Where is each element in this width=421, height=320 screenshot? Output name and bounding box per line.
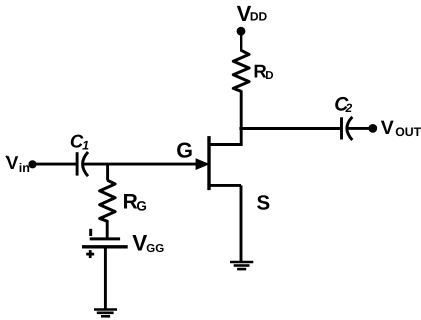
wire Vin dot to C1 bbox=[33, 163, 78, 166]
svg-text:V: V bbox=[381, 117, 394, 139]
svg-text:1: 1 bbox=[82, 139, 89, 153]
resistor RG bbox=[100, 180, 115, 221]
ground (battery) bbox=[94, 310, 117, 317]
label Vin bbox=[6, 152, 30, 175]
battery minus mark bbox=[89, 229, 92, 236]
svg-text:OUT: OUT bbox=[395, 125, 421, 139]
label RD bbox=[253, 60, 273, 82]
wire VDD dot to RD top bbox=[240, 31, 242, 51]
svg-text:G: G bbox=[176, 138, 193, 162]
label C2 bbox=[334, 94, 352, 116]
svg-text:G: G bbox=[136, 198, 147, 213]
battery plus mark bbox=[86, 250, 94, 258]
wire drain node to C2 bbox=[239, 127, 341, 130]
svg-text:D: D bbox=[265, 70, 273, 82]
transistor Q1 drain lead bbox=[208, 143, 243, 146]
wire RD bottom to drain corner bbox=[240, 91, 243, 145]
wire C2 to output dot bbox=[348, 127, 373, 130]
svg-text:in: in bbox=[19, 161, 30, 175]
wire source corner down to ground bbox=[240, 185, 243, 261]
node Vin terminal dot bbox=[28, 160, 36, 168]
label VDD bbox=[237, 1, 268, 26]
label RG bbox=[123, 191, 147, 214]
capacitor C1 bbox=[77, 152, 88, 176]
svg-text:DD: DD bbox=[250, 10, 268, 24]
battery VGG bottom plate bbox=[82, 245, 128, 248]
wire gate node down to RG bbox=[106, 164, 109, 180]
transistor Q1 source lead bbox=[208, 184, 242, 187]
svg-text:V: V bbox=[132, 231, 147, 256]
svg-text:S: S bbox=[257, 192, 271, 215]
battery VGG top plate bbox=[90, 237, 120, 240]
node VOUT terminal dot bbox=[368, 124, 377, 133]
wire battery to ground bbox=[104, 247, 107, 309]
svg-text:2: 2 bbox=[345, 101, 353, 115]
resistor RD bbox=[233, 50, 249, 91]
node VDD terminal dot bbox=[237, 27, 246, 36]
ground (source) bbox=[230, 262, 253, 269]
svg-text:GG: GG bbox=[146, 243, 164, 255]
transistor Q1 channel bar bbox=[207, 136, 210, 190]
label VGG bbox=[132, 231, 164, 256]
label C1 bbox=[70, 130, 89, 152]
transistor Q1 gate arrow bbox=[196, 158, 210, 170]
wire RG bottom to battery bbox=[106, 220, 109, 239]
svg-text:V: V bbox=[6, 152, 19, 173]
wire C1 to gate arrow bbox=[83, 163, 198, 166]
capacitor C2 bbox=[342, 117, 353, 140]
label VOUT bbox=[381, 117, 421, 139]
